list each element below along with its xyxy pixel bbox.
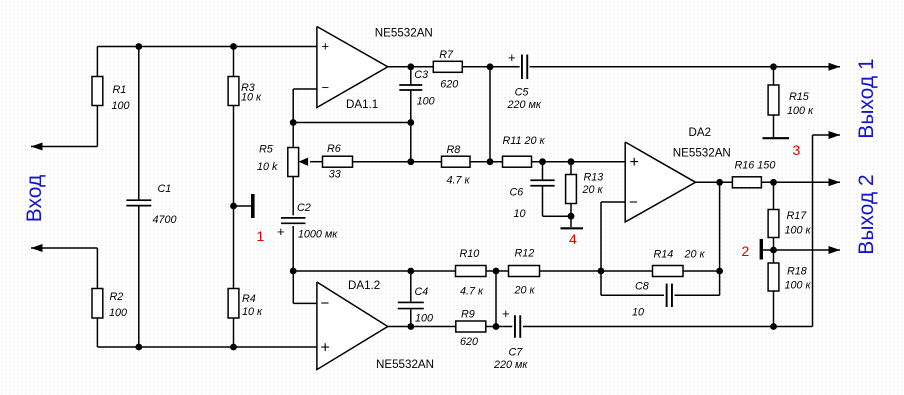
value R12 20 к [514, 285, 536, 297]
node junction output DA1.1 [407, 63, 414, 70]
node junction fb1 left [290, 119, 297, 126]
node output2 return arrow [829, 246, 841, 254]
label C4 [415, 286, 429, 298]
node output 1 arrow [829, 63, 841, 71]
wire R7 to C5 [462, 66, 519, 68]
svg-text:100 к: 100 к [785, 280, 812, 292]
pin DA1.1 minus [322, 80, 330, 95]
value R14 20 к [684, 249, 706, 261]
wire C8 loop [601, 271, 720, 295]
label C1 [158, 183, 172, 195]
label output Выход 1 [855, 58, 878, 138]
svg-text:10: 10 [514, 208, 526, 220]
wire feedback rail 1 [293, 122, 411, 124]
value R13 20 к [582, 184, 604, 196]
svg-text:4: 4 [569, 231, 577, 247]
wire DA2 output [696, 181, 733, 183]
label NE5532AN top [375, 27, 433, 40]
wire C3 branch [410, 67, 412, 162]
wire mid rail segments [411, 161, 625, 163]
wire DA2 minus input [601, 202, 625, 271]
node junction C1 bottom [135, 344, 142, 351]
svg-text:R9: R9 [461, 309, 475, 321]
resistor R12 [509, 266, 540, 277]
node junction fb2 R10-R12 [493, 268, 500, 275]
resistor R15 [768, 85, 779, 115]
svg-text:R16 150: R16 150 [735, 160, 776, 172]
node junction mid rail R6 [407, 158, 414, 165]
svg-text:Выход 1: Выход 1 [855, 58, 878, 138]
svg-text:R14: R14 [654, 249, 674, 261]
node junction R9-C7 [493, 323, 500, 330]
value C4 100 [415, 313, 433, 325]
value R3 10 к [241, 92, 262, 104]
node junction fb2 right [716, 268, 723, 275]
wire v2 connector [812, 135, 814, 327]
resistor R13 [566, 175, 577, 204]
wire DA1.1 output [388, 66, 434, 68]
wire R9 to C7 [486, 326, 513, 328]
svg-text:1000 мк: 1000 мк [298, 229, 338, 241]
node junction point 2 [770, 247, 777, 254]
svg-text:+: + [508, 50, 516, 65]
wire C1 branch [138, 47, 140, 348]
label C6 [510, 187, 524, 199]
value R17 100 к [785, 225, 812, 237]
value C7 220 мк [493, 359, 528, 371]
svg-text:220 мк: 220 мк [507, 99, 542, 111]
svg-text:20 к: 20 к [514, 285, 536, 297]
svg-text:DA1.1: DA1.1 [346, 98, 378, 111]
node junction v1 mid [487, 158, 494, 165]
capacitor C2 [281, 218, 306, 223]
svg-text:100 к: 100 к [785, 225, 812, 237]
svg-text:33: 33 [329, 169, 341, 181]
svg-text:100: 100 [417, 96, 435, 108]
svg-text:R13: R13 [584, 172, 604, 184]
label DA1.1 [346, 98, 378, 111]
wire v1 connector [489, 67, 491, 162]
node output1 return arrow [829, 131, 841, 139]
svg-text:R5: R5 [259, 144, 274, 156]
svg-text:620: 620 [460, 336, 478, 348]
value C1 4700 [153, 214, 177, 226]
resistor R9 [456, 321, 486, 332]
svg-text:+: + [502, 306, 510, 321]
svg-text:NE5532AN: NE5532AN [376, 358, 434, 371]
value R1 100 [112, 100, 130, 112]
label output Выход 2 [855, 174, 878, 254]
svg-text:R18: R18 [787, 266, 807, 278]
svg-text:10 к: 10 к [242, 306, 263, 318]
svg-text:100: 100 [109, 307, 127, 319]
capacitor C3 [399, 85, 422, 90]
label R13 [584, 172, 604, 184]
resistor R18 [768, 263, 779, 291]
svg-text:100: 100 [112, 100, 130, 112]
svg-text:C1: C1 [158, 183, 172, 195]
resistor R17 [768, 210, 779, 238]
node point 1 tick bar [251, 194, 255, 218]
label R12 [515, 248, 535, 260]
svg-text:R12: R12 [515, 248, 535, 260]
svg-text:C8: C8 [635, 281, 649, 293]
label R16 150 [735, 160, 776, 172]
svg-text:R2: R2 [110, 291, 124, 303]
label NE5532AN DA2 [673, 147, 731, 160]
value C2 1000 мк [298, 229, 338, 241]
value R4 10 к [242, 306, 263, 318]
wire DA1.2 minus input [293, 271, 317, 303]
svg-text:20 к: 20 к [582, 184, 604, 196]
wire point 2 stub [761, 249, 773, 251]
resistor R2 [92, 289, 103, 319]
svg-text:R15: R15 [789, 91, 810, 103]
node junction fb2 left [290, 268, 297, 275]
svg-text:DA1.2: DA1.2 [348, 279, 380, 292]
resistor R14 [653, 266, 684, 277]
svg-text:+: + [322, 39, 330, 54]
wire ground rail [523, 326, 813, 328]
value R18 100 к [785, 280, 812, 292]
wire R6 leads [310, 161, 411, 163]
node point 2 tick bar [760, 239, 763, 260]
wire top input rail [97, 46, 317, 48]
label R8 [447, 144, 461, 156]
node junction fb2 DA2minus [598, 268, 605, 275]
resistor R1 [92, 77, 103, 106]
node input-1 arrow [31, 143, 43, 151]
value C5 220 мк [507, 99, 542, 111]
resistor R16 [732, 177, 761, 188]
resistor R8 [442, 156, 471, 167]
svg-text:R17: R17 [787, 210, 808, 222]
node junction fb1 right [407, 119, 414, 126]
wire DA2 out to fb [719, 182, 721, 271]
node junction C1 top [135, 43, 142, 50]
svg-text:C3: C3 [414, 69, 428, 81]
node junction point 4 [568, 213, 575, 220]
svg-text:3: 3 [793, 142, 801, 158]
value C6 10 [514, 208, 526, 220]
svg-text:2: 2 [742, 243, 750, 259]
label R10 [460, 248, 480, 260]
resistor R10 [456, 266, 487, 277]
svg-text:C6: C6 [510, 187, 524, 199]
label C3 [414, 69, 428, 81]
svg-text:4.7 к: 4.7 к [447, 175, 471, 187]
capacitor C6 [530, 180, 554, 186]
label point 3 [793, 142, 801, 158]
label C2 [297, 202, 311, 214]
svg-text:R11 20 к: R11 20 к [503, 135, 546, 147]
label R17 [787, 210, 808, 222]
ground R15 bar [763, 137, 790, 139]
wire C4 branch [410, 271, 412, 327]
resistor R4 [228, 289, 239, 319]
op-amp DA2 body [625, 142, 695, 222]
svg-text:+: + [630, 154, 639, 171]
label R15 [789, 91, 810, 103]
svg-text:C5: C5 [515, 86, 530, 98]
resistor R6 [323, 156, 353, 167]
capacitor C1 [126, 200, 151, 205]
node junction fb2 C4 [407, 268, 414, 275]
label R3 [241, 82, 255, 94]
value R15 100 к [787, 105, 814, 117]
wire output1 return [813, 134, 841, 136]
label R4 [242, 293, 256, 305]
label point 2 [742, 243, 750, 259]
label R9 [461, 309, 475, 321]
wire R13 leads [570, 162, 572, 227]
wire C2 bottom lead [292, 226, 294, 271]
node junction R4 bottom [230, 344, 237, 351]
label C7 plus [502, 306, 510, 321]
value R7 620 [440, 79, 458, 91]
label input Вход [23, 175, 46, 223]
svg-text:10: 10 [632, 307, 644, 319]
value C3 100 [417, 96, 435, 108]
potentiometer R5 [288, 148, 299, 177]
pin DA1.2 minus [321, 295, 330, 312]
svg-text:20 к: 20 к [684, 249, 706, 261]
node junction R3 top [230, 43, 237, 50]
label R18 [787, 266, 807, 278]
label DA2 [689, 126, 712, 139]
wire feedback rail 2 [293, 270, 719, 272]
svg-text:10 k: 10 k [257, 161, 278, 173]
svg-text:220 мк: 220 мк [493, 359, 528, 371]
label point 4 [569, 231, 577, 247]
svg-text:1: 1 [257, 228, 265, 244]
svg-text:R8: R8 [447, 144, 461, 156]
pin DA1.1 plus [322, 39, 330, 54]
wire C6 branch [543, 162, 572, 217]
svg-text:+: + [321, 340, 330, 357]
label C5 plus [508, 50, 516, 65]
svg-text:Выход 2: Выход 2 [855, 174, 878, 254]
label R1 [113, 84, 127, 96]
node junction R15 top [770, 63, 777, 70]
svg-text:R1: R1 [113, 84, 127, 96]
resistor R11 [503, 156, 532, 167]
resistor R7 [433, 61, 462, 72]
svg-text:DA2: DA2 [689, 126, 712, 139]
label C2 plus [277, 224, 285, 239]
label NE5532AN bottom [376, 358, 434, 371]
wire output2 return [774, 249, 841, 251]
value R5 10 k [257, 161, 278, 173]
svg-text:C7: C7 [509, 347, 524, 359]
capacitor C8 [667, 284, 672, 308]
capacitor C7 [515, 315, 520, 338]
node junction DA1.2 out [407, 323, 414, 330]
svg-text:R10: R10 [460, 248, 480, 260]
wire input 1 lead and R1 branch [31, 47, 97, 147]
wire R10-R9 connector [495, 271, 497, 327]
wire R17 branch [773, 182, 775, 326]
node junction R18 bottom [770, 323, 777, 330]
ground point 4 bar [561, 227, 584, 229]
node junction R16-R17 [770, 179, 777, 186]
node output 2 arrow [829, 178, 841, 186]
wire bottom input rail [97, 346, 317, 348]
svg-text:100 к: 100 к [787, 105, 814, 117]
wire DA1.2 output [388, 326, 456, 328]
pin DA2 minus [629, 194, 638, 211]
wire R15 branch [773, 67, 775, 137]
label point 1 [257, 228, 265, 244]
label C7 [509, 347, 524, 359]
node junction C6 top [539, 158, 546, 165]
op-amp DA1.2 body [317, 282, 388, 370]
svg-text:NE5532AN: NE5532AN [375, 27, 433, 40]
node junction R7-C5 [487, 63, 494, 70]
svg-text:R4: R4 [242, 293, 256, 305]
node junction R13 top [568, 158, 575, 165]
label R2 [110, 291, 124, 303]
capacitor C4 [398, 302, 424, 308]
svg-text:4700: 4700 [153, 214, 177, 226]
wire test point 1 stub [234, 205, 252, 207]
label DA1.2 [348, 279, 380, 292]
svg-text:10 к: 10 к [241, 92, 262, 104]
node R5 wiper arrow [299, 158, 309, 166]
svg-text:4.7 к: 4.7 к [460, 286, 484, 298]
capacitor C5 [522, 55, 527, 80]
wire output 1 rail [530, 66, 840, 68]
value R8 4.7 к [447, 175, 471, 187]
label R6 [327, 143, 341, 155]
wire R3-R4 branch [233, 47, 235, 348]
wire DA1.1 minus input [293, 89, 317, 123]
resistor R3 [228, 77, 239, 106]
wire input 2 lead and R2 branch [31, 248, 97, 347]
svg-text:R7: R7 [439, 49, 454, 61]
node input-2 arrow [31, 244, 43, 252]
node junction DA2 out [716, 179, 723, 186]
label R14 [654, 249, 674, 261]
label C8 [635, 281, 649, 293]
svg-text:−: − [321, 295, 330, 312]
node junction point 1 [230, 203, 237, 210]
value R10 4.7 к [460, 286, 484, 298]
svg-text:−: − [322, 80, 330, 95]
label R7 [439, 49, 454, 61]
value R6 33 [329, 169, 341, 181]
op-amp DA1.1 body [317, 27, 388, 108]
label R5 [259, 144, 274, 156]
label C5 [515, 86, 530, 98]
value C8 10 [632, 307, 644, 319]
svg-text:620: 620 [440, 79, 458, 91]
wire output 2 rail [761, 181, 840, 183]
svg-text:C2: C2 [297, 202, 311, 214]
svg-text:R6: R6 [327, 143, 341, 155]
svg-text:+: + [277, 224, 285, 239]
svg-text:C4: C4 [415, 286, 429, 298]
pin DA1.2 plus [321, 340, 330, 357]
pin DA2 plus [630, 154, 639, 171]
value R2 100 [109, 307, 127, 319]
svg-text:100: 100 [415, 313, 433, 325]
value R9 620 [460, 336, 478, 348]
svg-text:Вход: Вход [23, 175, 46, 223]
label R11 20 к [503, 135, 546, 147]
wire R5 branch [292, 123, 294, 216]
svg-text:−: − [629, 194, 638, 211]
svg-text:NE5532AN: NE5532AN [673, 147, 731, 160]
